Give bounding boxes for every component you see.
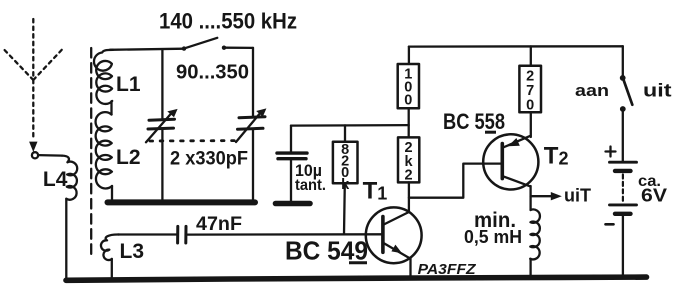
battery BT1 plus sign [606, 150, 616, 152]
capacitor C2 47nF plates [176, 226, 179, 243]
battery BT1 bottom cell short plate [615, 212, 631, 216]
node switch S2 bottom contact [620, 106, 626, 112]
uit output arrowhead [551, 192, 562, 200]
svg-text:k: k [341, 177, 350, 193]
inductor L3 [101, 234, 119, 260]
transistor T1 base bar [381, 217, 385, 253]
wire R3 to T1 collector [408, 182, 410, 211]
wire mid rail [291, 124, 409, 127]
svg-text:6V: 6V [641, 186, 667, 206]
underline under 5 of BC558 [485, 131, 496, 134]
wire top rail to R4 [530, 46, 532, 65]
wire L2 to tank ground bar [111, 186, 113, 200]
svg-text:T1: T1 [363, 177, 388, 204]
svg-text:uit: uit [643, 81, 672, 101]
bottom ground rail [66, 277, 647, 280]
inductor L1 [94, 50, 113, 104]
wire mid rail to R1 [344, 125, 346, 141]
label R4 270 (vertical) [526, 69, 534, 114]
wire top rail to R2 [408, 47, 410, 64]
svg-text:0: 0 [404, 93, 412, 109]
band switch blade [185, 38, 217, 48]
inductor L4 [62, 156, 77, 200]
capacitor C3 plates [277, 151, 307, 154]
battery BT1 bottom cell long plate [610, 203, 637, 206]
svg-text:0: 0 [526, 98, 534, 114]
transistor T1 circle [366, 207, 422, 263]
svg-text:L3: L3 [120, 240, 145, 263]
wire C3 to ground bar [290, 160, 292, 202]
variable capacitor C1a arrow [146, 113, 172, 143]
wire L3 to bottom rail [111, 259, 113, 280]
wire T1 collector to T2 base (step) [409, 164, 502, 198]
wire C2 to T1 base [188, 233, 383, 236]
underline under 9 of BC549 [349, 261, 367, 264]
wire T2 collector down [529, 186, 531, 210]
svg-text:90...350: 90...350 [176, 61, 249, 84]
wire L4 to bottom rail [65, 199, 67, 280]
wire C1b top [252, 48, 254, 117]
tank ground bar [108, 199, 256, 205]
wire C1a bottom [161, 130, 163, 201]
switch S2 blade [624, 80, 633, 105]
node switch S2 top contact [620, 75, 626, 81]
wire switch to C1b branch [226, 47, 253, 50]
variable capacitor C1b plates [239, 117, 265, 118]
svg-text:2: 2 [405, 168, 413, 184]
svg-text:140 ....550 kHz: 140 ....550 kHz [159, 9, 297, 34]
transistor T1 emitter [384, 243, 411, 259]
svg-text:T2: T2 [544, 143, 569, 170]
wire uit output [531, 195, 552, 197]
resistor R2 100 body [398, 64, 419, 108]
wire L3 to C2 [118, 233, 176, 235]
wire tank top rail [110, 49, 184, 50]
svg-text:tant.: tant. [295, 177, 326, 194]
transistor T2 emitter arrow [508, 138, 520, 146]
wire rail corner down to switch [622, 46, 624, 75]
antenna arrowhead [29, 142, 37, 152]
label R2 100 (vertical) [404, 67, 412, 109]
ground bar under C3 [276, 201, 311, 207]
inductor L2 [96, 112, 112, 188]
transistor T2 collector (bottom) [503, 176, 530, 186]
svg-text:47nF: 47nF [196, 214, 242, 235]
transistor T1 collector [384, 212, 409, 225]
wire top supply rail [409, 45, 623, 48]
wire terminal to L4 [38, 154, 62, 157]
gang coupling line (dotted) [150, 139, 237, 142]
capacitor C3 10u: wire from mid rail [290, 126, 292, 152]
wire R2 to R3 [408, 108, 410, 137]
svg-text:PA3FFZ: PA3FFZ [418, 262, 477, 278]
svg-text:BC 558: BC 558 [443, 109, 505, 134]
wire R4 to T2 emitter [530, 112, 532, 137]
svg-text:uiT: uiT [564, 186, 591, 206]
resistor R4 270 body [519, 66, 541, 112]
svg-text:L1: L1 [116, 73, 141, 96]
wire switch to battery [622, 112, 624, 161]
svg-text:2 x330pF: 2 x330pF [170, 149, 248, 170]
svg-text:aan: aan [575, 82, 609, 100]
inductor L5 0.5mH [530, 209, 540, 259]
battery BT1 dashed middle [622, 175, 624, 202]
wire C1a top [161, 50, 163, 119]
node switch right contact [222, 46, 226, 50]
wire C1b bottom [252, 130, 254, 201]
svg-text:L2: L2 [116, 146, 141, 169]
battery BT1 top cell short plate [615, 169, 631, 173]
label R3 2k2 (vertical) [405, 140, 414, 184]
antenna (dashed) [5, 19, 64, 137]
variable capacitor C1a plates [149, 119, 175, 120]
transistor T2 circle [483, 134, 538, 189]
battery BT1 minus sign [606, 223, 614, 226]
transistor T1 emitter arrow [391, 245, 402, 254]
battery BT1 top cell long plate [610, 161, 637, 164]
wire L1-L2 junction [110, 101, 112, 114]
wire T1 emitter to bottom rail [409, 258, 411, 276]
transistor T2 base bar [500, 144, 504, 179]
node switch left contact [182, 46, 186, 50]
wire battery to bottom rail [622, 216, 624, 278]
wire L5 to bottom rail [529, 259, 531, 278]
node antenna terminal [32, 152, 38, 158]
svg-text:L4: L4 [43, 168, 68, 191]
transistor T2 emitter (top) [503, 136, 530, 148]
variable capacitor C1b arrow [236, 112, 262, 143]
wire R1 to T1 base line [343, 183, 346, 234]
svg-text:0,5 mH: 0,5 mH [464, 227, 522, 247]
label R1 820k (vertical) [341, 142, 350, 193]
resistor R3 2k2 body [398, 137, 419, 182]
svg-text:BC 549: BC 549 [285, 236, 368, 266]
transformer core (dashed line) [90, 48, 92, 258]
resistor R1 820k body [333, 142, 358, 184]
